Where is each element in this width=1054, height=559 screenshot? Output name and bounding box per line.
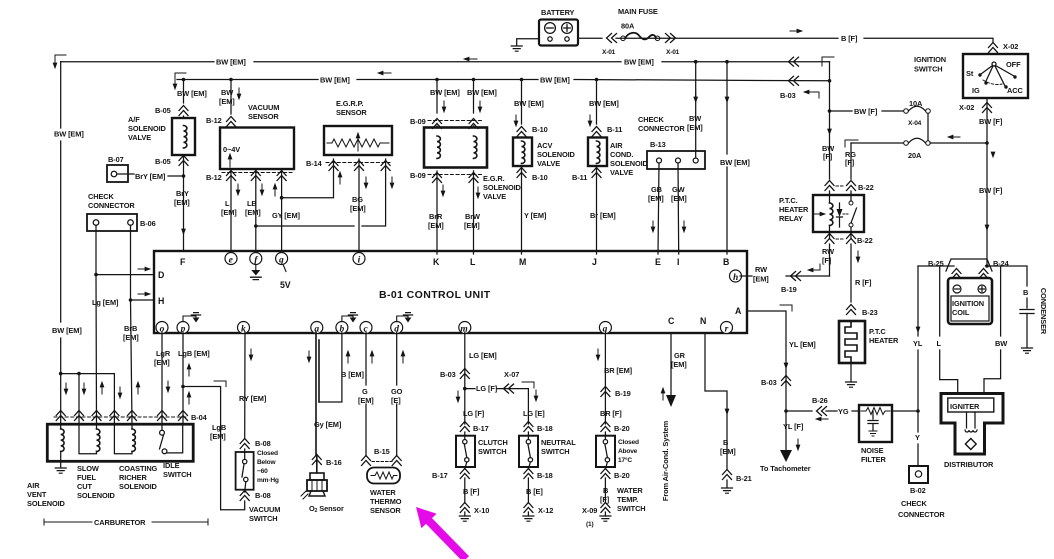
control unit B-01 (154, 251, 747, 333)
svg-text:B-17: B-17 (432, 471, 448, 480)
svg-text:SENSOR: SENSOR (248, 112, 279, 121)
connector X-09 + ground (601, 503, 610, 513)
wire: m to clutch switch (LG) (464, 332, 466, 424)
svg-text:B: B (603, 486, 608, 495)
connector X-10 + ground (460, 503, 469, 513)
svg-text:[EM]: [EM] (154, 358, 170, 367)
svg-text:B-03: B-03 (780, 91, 796, 100)
svg-text:CHECK: CHECK (638, 115, 665, 124)
junction: GY / EGRP left pin (280, 196, 284, 200)
svg-text:Closed: Closed (257, 450, 278, 457)
svg-text:GY [EM]: GY [EM] (272, 211, 301, 220)
svg-text:[EM]: [EM] (720, 447, 736, 456)
svg-text:BATTERY: BATTERY (541, 8, 575, 17)
slow fuel cut solenoid coil (79, 424, 97, 454)
connector B-12 lower row (222, 172, 292, 174)
svg-text:r: r (725, 324, 729, 334)
svg-text:B-18: B-18 (537, 471, 553, 480)
connector B-19 (water temp) (601, 387, 610, 397)
svg-text:SLOW: SLOW (77, 464, 99, 473)
svg-text:X-09: X-09 (582, 506, 597, 515)
air vent solenoid coil (60, 424, 62, 429)
carburetor bracket (44, 519, 208, 525)
svg-text:NOISE: NOISE (861, 446, 884, 455)
svg-text:THERMO: THERMO (370, 497, 402, 506)
wire: BW to carb coil1 (60, 374, 62, 424)
svg-text:B-18: B-18 (537, 424, 553, 433)
wire: BrY from B-07 to A/F column (117, 174, 184, 176)
connector B-20 upper (601, 422, 610, 432)
svg-text:[EM]: [EM] (753, 275, 769, 284)
svg-text:To Tachometer: To Tachometer (760, 464, 811, 473)
connector B-22 lower (836, 238, 845, 240)
wire: A to YL[EM] riser (747, 311, 786, 450)
svg-text:[F]: [F] (823, 152, 833, 161)
svg-text:X-01: X-01 (602, 49, 616, 56)
svg-text:COASTING: COASTING (119, 464, 158, 473)
svg-text:Lg [EM]: Lg [EM] (92, 298, 119, 307)
wire: c to thermo sensor (G) (365, 332, 367, 456)
wire: GY[EM] to g (281, 169, 283, 254)
svg-text:B-02: B-02 (910, 486, 926, 495)
svg-text:MAIN FUSE: MAIN FUSE (618, 7, 658, 16)
svg-text:B: B (1023, 288, 1028, 297)
svg-text:LG [EM]: LG [EM] (469, 351, 497, 360)
wire: top B[F] bus from battery to ignition switch (578, 38, 993, 42)
connector B-14 row (326, 162, 390, 164)
svg-text:X-02: X-02 (1003, 42, 1018, 51)
svg-text:SENSOR: SENSOR (370, 506, 401, 515)
svg-text:BW [F]: BW [F] (979, 117, 1003, 126)
svg-text:BW [EM]: BW [EM] (177, 89, 207, 98)
connector B-17 lower (460, 469, 469, 479)
svg-text:[EM]: [EM] (219, 97, 235, 106)
svg-text:CARBURETOR: CARBURETOR (94, 518, 146, 527)
connector B-23 (847, 305, 856, 315)
wire: BW power branch bus (61, 374, 115, 424)
svg-text:H: H (158, 296, 164, 306)
terminal m (459, 322, 471, 334)
svg-text:B: B (723, 438, 728, 447)
junction: YL to noise filter (784, 409, 788, 413)
svg-text:A: A (735, 306, 742, 316)
svg-text:SWITCH: SWITCH (478, 447, 507, 456)
svg-text:GO: GO (391, 387, 403, 396)
wire: neutral to body ground (527, 478, 529, 503)
terminal i (353, 253, 365, 265)
svg-text:SOLENOID: SOLENOID (483, 183, 522, 192)
svg-text:SOLENOID: SOLENOID (27, 499, 66, 508)
svg-text:[EM]: [EM] (245, 208, 261, 217)
connector B-17 upper (460, 422, 469, 432)
connector X-12 + ground (524, 503, 533, 513)
svg-text:RICHER: RICHER (119, 473, 147, 482)
svg-text:L: L (225, 199, 230, 208)
svg-text:LgB: LgB (212, 423, 226, 432)
svg-text:g: g (278, 255, 284, 265)
connector B-09 lower row (428, 174, 482, 176)
wire: L from coil to igniter (940, 266, 958, 393)
wire: right riser joining line1/line2 to fuse feed (829, 62, 831, 111)
svg-text:BW [EM]: BW [EM] (320, 76, 350, 85)
connector B-03 on bus lines (789, 57, 799, 66)
wire: B-06 left pin to D and Lg[EM] down (95, 225, 98, 423)
svg-text:BrY: BrY (176, 189, 189, 198)
svg-text:Below: Below (257, 459, 276, 466)
wire: coil node horizontal (YL / L / B-25) (918, 265, 954, 267)
svg-text:80A: 80A (621, 22, 635, 31)
wire: noise filter to YL riser (892, 410, 918, 412)
svg-text:CHECK: CHECK (88, 192, 115, 201)
terminal r (721, 322, 733, 334)
svg-text:B-23: B-23 (862, 308, 878, 317)
wire: water temp to body ground (604, 478, 606, 503)
svg-text:From Air-Cond. System: From Air-Cond. System (661, 420, 670, 501)
svg-text:L: L (937, 339, 942, 348)
svg-text:N: N (700, 316, 706, 326)
svg-text:[EM]: [EM] (174, 198, 190, 207)
svg-text:LB: LB (247, 199, 257, 208)
svg-text:HEATER: HEATER (779, 205, 809, 214)
svg-text:LG [F]: LG [F] (463, 409, 485, 418)
junction: ign sw wire / 20A feed (985, 141, 989, 145)
wire: fuse right link (927, 114, 929, 141)
svg-text:YL [EM]: YL [EM] (789, 340, 816, 349)
svg-text:0~4V: 0~4V (223, 145, 240, 154)
svg-text:B-04: B-04 (191, 413, 208, 422)
terminal h (730, 270, 742, 282)
svg-text:SWITCH: SWITCH (914, 65, 943, 74)
wire: BW from coil node to igniter (984, 266, 1001, 393)
svg-text:CUT: CUT (77, 482, 92, 491)
idle switch (161, 424, 163, 430)
svg-text:CONNECTOR: CONNECTOR (88, 201, 135, 210)
svg-text:IG: IG (972, 86, 980, 95)
P.T.C heater (839, 321, 865, 363)
svg-text:GB: GB (651, 185, 662, 194)
vacuum sensor branch from bus (229, 78, 233, 82)
svg-text:M: M (519, 257, 526, 267)
wire: C terminal to air-cond system (670, 333, 672, 395)
svg-text:10A: 10A (909, 99, 923, 108)
svg-text:VALVE: VALVE (610, 168, 633, 177)
svg-text:BW: BW (221, 88, 233, 97)
distributor housing (941, 394, 1003, 455)
svg-text:GW: GW (672, 185, 685, 194)
svg-text:B-11: B-11 (572, 173, 587, 182)
svg-text:CONNECTOR: CONNECTOR (898, 510, 945, 519)
svg-text:B-06: B-06 (140, 219, 156, 228)
svg-text:BW [EM]: BW [EM] (467, 88, 497, 97)
svg-text:D: D (158, 270, 164, 280)
wire: GW[EM] to I (677, 163, 680, 254)
svg-text:P.T.C: P.T.C (869, 327, 886, 336)
svg-text:YG: YG (838, 407, 849, 416)
svg-text:L: L (470, 257, 476, 267)
ignition coil (948, 278, 992, 324)
wire: battery negative to ground (517, 39, 539, 45)
svg-text:[EM]: [EM] (464, 221, 480, 230)
wire: X-07 link to neutral switch (465, 389, 529, 424)
svg-text:Gy [EM]: Gy [EM] (314, 420, 342, 429)
connector B-04 row (54, 416, 188, 418)
terminal q (599, 322, 611, 334)
svg-text:Y [EM]: Y [EM] (524, 211, 547, 220)
svg-text:FUEL: FUEL (77, 473, 96, 482)
svg-text:(1): (1) (586, 521, 593, 528)
svg-text:AIR: AIR (610, 141, 623, 150)
connector B-16 (312, 455, 321, 465)
svg-text:R [F]: R [F] (855, 278, 872, 287)
svg-text:COND.: COND. (610, 150, 633, 159)
svg-text:[EM]: [EM] (210, 432, 226, 441)
svg-text:SOLENOID: SOLENOID (77, 491, 116, 500)
svg-text:BR [EM]: BR [EM] (604, 366, 633, 375)
svg-text:VACUUM: VACUUM (249, 505, 280, 514)
wire: Y[EM] to M (521, 166, 523, 254)
svg-text:B [F]: B [F] (841, 34, 858, 43)
svg-text:B-20: B-20 (614, 471, 630, 480)
noise filter (859, 405, 892, 442)
svg-text:B-20: B-20 (614, 424, 630, 433)
svg-text:IDLE: IDLE (163, 461, 180, 470)
svg-text:B-09: B-09 (410, 171, 426, 180)
svg-text:m: m (460, 324, 467, 334)
svg-text:ACC: ACC (1007, 86, 1023, 95)
svg-text:AIR: AIR (27, 481, 40, 490)
wire: Br[EM] to J (596, 166, 598, 254)
svg-text:SWITCH: SWITCH (163, 470, 192, 479)
svg-text:SOLENOID: SOLENOID (537, 150, 576, 159)
connector B-18 lower (524, 469, 533, 479)
svg-text:CONDENSER: CONDENSER (1039, 288, 1048, 335)
wire: BW[EM] bus line1 across top (61, 61, 830, 63)
wire: ignition switch IG output down (986, 98, 988, 266)
connector B-21 + ground (723, 470, 732, 480)
wire: h to PTC relay RW[F] (740, 275, 829, 277)
neutral switch connector B-18 upper (524, 422, 533, 432)
connector B-08 lower (240, 491, 249, 501)
to tachometer arrow (780, 450, 792, 462)
svg-text:St: St (966, 69, 974, 78)
svg-text:SENSOR: SENSOR (336, 108, 367, 117)
svg-text:WATER: WATER (370, 488, 396, 497)
terminal b with ground flag (336, 322, 348, 334)
svg-text:BG: BG (352, 195, 363, 204)
terminal e (225, 253, 237, 265)
svg-text:X-07: X-07 (504, 370, 519, 379)
svg-text:VENT: VENT (27, 490, 47, 499)
connector B-03 (clutch) (460, 369, 469, 379)
svg-text:WATER: WATER (617, 486, 643, 495)
connector B-24 (979, 269, 988, 279)
rotor diamond (965, 439, 976, 450)
svg-text:[F]: [F] (822, 256, 832, 265)
air cond solenoid valve branch (595, 78, 599, 82)
svg-text:B-22: B-22 (857, 236, 873, 245)
wire: BW[EM] bus line2 (177, 80, 830, 81)
svg-text:B-15: B-15 (374, 447, 390, 456)
svg-text:X-02: X-02 (959, 103, 974, 112)
svg-text:Closed: Closed (618, 439, 639, 446)
wire: BW[F] drop to PTC relay (829, 111, 831, 179)
A/F solenoid valve (172, 118, 195, 155)
svg-text:BrR: BrR (429, 212, 443, 221)
wire: L[EM] to e (230, 169, 232, 254)
svg-text:SWITCH: SWITCH (249, 514, 278, 523)
svg-text:B-21: B-21 (736, 474, 752, 483)
terminal d with ground flag (391, 322, 403, 334)
svg-text:IGNITION: IGNITION (952, 299, 984, 308)
svg-text:RW: RW (822, 247, 834, 256)
wire: H terminal feed (131, 299, 155, 301)
ignition coil cover (946, 259, 992, 271)
svg-text:SOLENOID: SOLENOID (128, 124, 167, 133)
svg-text:BW [F]: BW [F] (979, 186, 1003, 195)
wire: clutch to body ground (464, 478, 466, 503)
wire: B-06 right pin to H and BrB[EM] down (131, 225, 133, 423)
svg-text:BW [EM]: BW [EM] (624, 58, 654, 67)
terminal p with ground flag (177, 322, 189, 334)
svg-text:BW [EM]: BW [EM] (54, 130, 84, 139)
svg-text:GR: GR (674, 351, 686, 360)
svg-text:SOLENOID: SOLENOID (119, 482, 158, 491)
svg-text:SOLENOID: SOLENOID (610, 159, 649, 168)
svg-text:B-08: B-08 (255, 439, 271, 448)
svg-text:NEUTRAL: NEUTRAL (541, 438, 576, 447)
check connector B-02 (909, 466, 928, 483)
svg-text:X-10: X-10 (474, 506, 489, 515)
svg-text:E.G.R.P.: E.G.R.P. (336, 99, 363, 108)
terminal k (238, 322, 250, 334)
svg-text:BrY [EM]: BrY [EM] (135, 172, 166, 181)
svg-text:G: G (362, 387, 368, 396)
svg-text:B-05: B-05 (155, 157, 171, 166)
connector B-22 upper (836, 185, 845, 187)
wire: BrR[EM] to K (436, 171, 438, 254)
svg-text:K: K (433, 257, 440, 267)
connector B-03 (tach) (782, 376, 791, 386)
wire: left border BW[EM] vertical (60, 62, 62, 374)
svg-text:B-08: B-08 (255, 491, 271, 500)
terminal o (156, 322, 168, 334)
wire: b joins shield (319, 332, 342, 402)
svg-text:B-10: B-10 (532, 173, 548, 182)
svg-text:B-07: B-07 (108, 155, 124, 164)
wire: BG[EM] to i (358, 159, 360, 254)
svg-text:B [F]: B [F] (463, 487, 480, 496)
svg-text:[F]: [F] (845, 158, 855, 167)
O2 sensor (310, 473, 324, 480)
svg-text:CHECK: CHECK (901, 499, 928, 508)
EGR solenoid valve branches from bus (435, 78, 439, 82)
svg-text:BW [EM]: BW [EM] (589, 99, 619, 108)
svg-text:mm·Hg: mm·Hg (257, 477, 279, 484)
svg-text:BW [EM]: BW [EM] (514, 99, 544, 108)
wire: BrW[EM] to L (473, 171, 475, 254)
svg-text:LG [F]: LG [F] (476, 384, 498, 393)
connector B-20 lower (601, 469, 610, 479)
svg-text:LgB [EM]: LgB [EM] (178, 349, 210, 358)
A/F solenoid valve branch (182, 78, 186, 82)
svg-text:SWITCH: SWITCH (541, 447, 570, 456)
svg-text:B [E]: B [E] (526, 487, 543, 496)
wire: R[F] relay output down (850, 244, 852, 302)
svg-text:RY [EM]: RY [EM] (239, 394, 267, 403)
connector B-08 upper (240, 439, 249, 449)
svg-text:B-25: B-25 (928, 259, 944, 268)
pickup coil in distributor (967, 412, 976, 428)
svg-text:BW [EM]: BW [EM] (540, 76, 570, 85)
svg-text:B-11: B-11 (607, 125, 622, 134)
ACV solenoid valve branch (520, 78, 524, 82)
svg-text:B-17: B-17 (473, 424, 489, 433)
svg-text:5V: 5V (280, 280, 291, 290)
connector X-02 top (989, 43, 998, 53)
svg-text:BW [EM]: BW [EM] (430, 88, 460, 97)
svg-text:BR [F]: BR [F] (600, 409, 622, 418)
svg-text:VACUUM: VACUUM (248, 103, 279, 112)
svg-text:[E]: [E] (391, 396, 401, 405)
igniter U2 (948, 398, 994, 412)
wire: YL riser from coil node down to B-02 (917, 266, 919, 466)
svg-text:B-22: B-22 (858, 183, 874, 192)
svg-text:B-24: B-24 (993, 259, 1010, 268)
svg-text:ACV: ACV (537, 141, 552, 150)
svg-text:P.T.C.: P.T.C. (779, 196, 798, 205)
wire: o to idle switch (LgR) (161, 332, 163, 424)
neutral switch (519, 436, 538, 467)
svg-text:B: B (723, 257, 729, 267)
wire: BW feed to B-13 third pin (694, 60, 698, 64)
connector B-05 lower (183, 155, 185, 251)
svg-text:TEMP.: TEMP. (617, 495, 638, 504)
svg-text:IGNITER: IGNITER (950, 402, 980, 411)
svg-text:VALVE: VALVE (537, 159, 560, 168)
terminal a (311, 322, 323, 334)
water thermo sensor (367, 468, 400, 484)
svg-text:Y: Y (915, 433, 920, 442)
wire: RW[F] relay output to h line (829, 244, 831, 276)
svg-text:O2 Sensor: O2 Sensor (309, 504, 344, 514)
svg-text:COIL: COIL (952, 308, 970, 317)
svg-text:CLUTCH: CLUTCH (478, 438, 508, 447)
svg-text:HEATER: HEATER (869, 336, 899, 345)
carburetor block (47, 424, 193, 461)
svg-text:E.G.R.: E.G.R. (483, 174, 505, 183)
svg-text:Above: Above (618, 448, 638, 455)
wire: D terminal feed (96, 274, 154, 276)
wire: GB[EM] to E (658, 163, 659, 254)
svg-text:[EM]: [EM] (350, 204, 366, 213)
fuse 10A (830, 106, 926, 111)
svg-text:BW [EM]: BW [EM] (720, 158, 750, 167)
svg-text:Br [EM]: Br [EM] (590, 211, 616, 220)
svg-text:B-03: B-03 (761, 378, 777, 387)
connector B-25 (952, 269, 961, 279)
highlight arrow pointing to water thermo sensor (416, 507, 469, 559)
svg-text:[EM]: [EM] (671, 360, 687, 369)
svg-text:a: a (314, 324, 319, 334)
fuse 20A (851, 138, 987, 143)
svg-text:B [EM]: B [EM] (341, 370, 364, 379)
connector B-09 upper row (428, 120, 482, 122)
svg-text:SWITCH: SWITCH (617, 504, 646, 513)
svg-text:BW [EM]: BW [EM] (216, 58, 246, 67)
water temp switch (596, 436, 615, 467)
svg-text:h: h (733, 273, 738, 283)
svg-text:LG [E]: LG [E] (523, 409, 545, 418)
